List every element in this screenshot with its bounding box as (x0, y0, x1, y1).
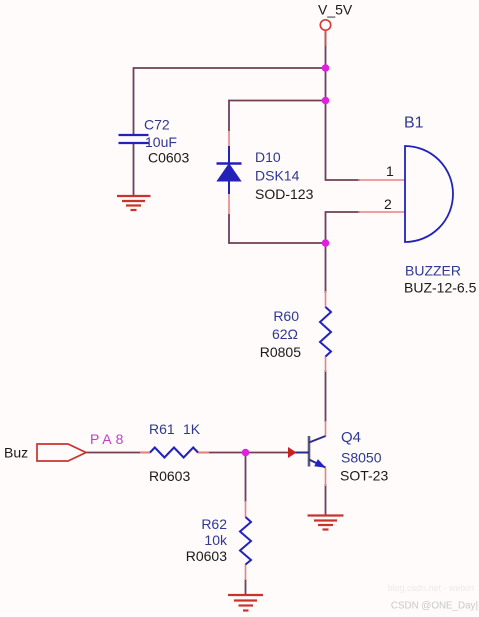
pin R62 top (245, 501, 247, 517)
buzzer pin number 2 (384, 196, 392, 212)
port Buz (37, 444, 86, 461)
svg-text:C72: C72 (144, 117, 170, 133)
capacitor C72 value 10uF (145, 134, 177, 150)
wire R61 to Q4 base (198, 452, 288, 454)
svg-text:Buz: Buz (4, 445, 28, 461)
wire diode bottom vertical (228, 214, 230, 244)
resistor R61 designator and value (149, 421, 201, 437)
svg-text:BUZZER: BUZZER (405, 263, 461, 279)
power node V_5V label (318, 2, 353, 18)
wire junction down to R60 (325, 242, 327, 293)
power node V_5V circle (320, 20, 330, 30)
svg-text:R0603: R0603 (149, 468, 190, 484)
svg-text:PA8: PA8 (90, 431, 127, 447)
svg-text:10k: 10k (204, 532, 228, 548)
buzzer B1 designator (404, 115, 424, 132)
transistor Q4 value S8050 (341, 450, 382, 466)
transistor Q4 base bar (308, 436, 311, 467)
svg-text:1: 1 (386, 163, 394, 179)
svg-text:1K: 1K (183, 421, 201, 437)
svg-text:R60: R60 (273, 308, 299, 324)
transistor Q4 designator (341, 429, 361, 446)
svg-text:R62: R62 (201, 516, 227, 532)
svg-text:V_5V: V_5V (318, 2, 353, 18)
resistor R60 zigzag (320, 307, 331, 357)
wire main vertical from V_5V to buzzer pin1 branch (326, 31, 361, 181)
junction at diode bottom wire (322, 239, 330, 247)
C72 wire below cap to ground (133, 143, 135, 196)
transistor Q4 footprint SOT-23 (340, 468, 388, 484)
resistor R62 designator (201, 516, 227, 532)
wire R60 bottom to Q4 collector (325, 370, 327, 422)
junction at top wire (322, 64, 330, 72)
ground below R62 (228, 595, 263, 611)
buzzer footprint BUZ-12-6.5 (404, 280, 477, 296)
junction at base wire / R62 (242, 449, 250, 457)
capacitor C72 designator (144, 117, 170, 133)
capacitor C72 footprint C0603 (148, 150, 189, 166)
watermark (387, 583, 478, 612)
buzzer value BUZZER (405, 263, 461, 279)
ground below Q4 emitter (308, 516, 344, 530)
svg-text:BUZ-12-6.5: BUZ-12-6.5 (404, 280, 477, 296)
resistor R60 value 62ohm (272, 326, 298, 342)
transistor Q4 collector diagonal (309, 436, 326, 443)
buzzer B1 body (405, 146, 453, 242)
pin D10 top (228, 131, 230, 148)
capacitor C72 plates (119, 135, 149, 143)
junction at diode top wire (322, 97, 330, 105)
ground below C72 (117, 196, 151, 210)
diode D10 footprint SOD-123 (255, 186, 314, 202)
svg-text:DSK14: DSK14 (255, 168, 300, 184)
buzzer pin number 1 (386, 163, 394, 179)
wire diode bottom horizontal (229, 242, 326, 244)
wire junction down to R62 (245, 453, 247, 503)
power pin below V_5V (325, 31, 327, 47)
pin buzzer pin 1 (358, 179, 405, 181)
pin R61 right (197, 452, 209, 454)
wire buzzer pin2 branch down to junction (326, 212, 361, 243)
resistor R61 footprint R0603 (149, 468, 190, 484)
resistor R60 designator (273, 308, 299, 324)
svg-text:R61: R61 (149, 421, 175, 437)
svg-text:62Ω: 62Ω (272, 326, 298, 342)
pin Q4 emitter (325, 468, 327, 486)
wire diode top vertical (228, 100, 230, 131)
resistor R62 value 10k (204, 532, 228, 548)
pin R60 bottom (325, 356, 327, 372)
diode D10 symbol (217, 146, 242, 194)
wire top horizontal from C72 to main vertical (134, 67, 326, 69)
net label PA8 (90, 431, 127, 447)
wire from top horizontal down to C72 top plate (133, 67, 135, 135)
resistor R61 zigzag (150, 448, 198, 458)
svg-text:SOT-23: SOT-23 (340, 468, 388, 484)
svg-text:R0805: R0805 (260, 344, 301, 360)
pin D10 bottom (228, 193, 230, 214)
svg-text:Q4: Q4 (341, 429, 361, 446)
svg-text:blog.csdn.net - weixin: blog.csdn.net - weixin (387, 583, 474, 593)
transistor Q4 base wire stub (294, 452, 309, 454)
pin R62 bottom (245, 564, 247, 580)
base signal flow arrow (288, 447, 297, 458)
wire diode top horizontal (229, 100, 326, 102)
wire Q4 emitter to ground (325, 484, 327, 515)
pin Q4 collector (325, 421, 327, 437)
port Buz label (4, 445, 28, 461)
svg-text:S8050: S8050 (341, 450, 382, 466)
transistor Q4 emitter diagonal with arrow (309, 459, 326, 468)
svg-text:CSDN @ONE_Day|: CSDN @ONE_Day| (391, 601, 478, 612)
svg-text:C0603: C0603 (148, 150, 189, 166)
svg-text:10uF: 10uF (145, 134, 177, 150)
pin R61 left (140, 452, 151, 454)
svg-text:R0603: R0603 (186, 548, 227, 564)
svg-text:SOD-123: SOD-123 (255, 186, 314, 202)
resistor R62 zigzag (240, 517, 251, 565)
resistor R60 footprint R0805 (260, 344, 301, 360)
wire R62 bottom to ground (245, 579, 247, 595)
svg-text:2: 2 (384, 196, 392, 212)
svg-text:B1: B1 (404, 115, 424, 132)
pin buzzer pin 2 (358, 211, 405, 213)
svg-text:D10: D10 (255, 149, 281, 165)
resistor R62 footprint R0603 (186, 548, 227, 564)
diode D10 designator (255, 149, 281, 165)
pin R60 top (325, 291, 327, 308)
wire Buz port to R61 (86, 452, 150, 454)
diode D10 value DSK14 (255, 168, 300, 184)
